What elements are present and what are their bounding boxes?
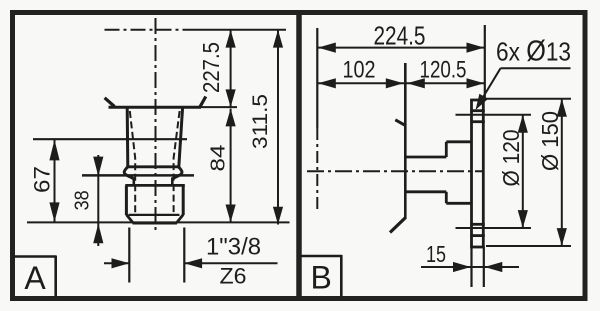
svg-text:1"3/8: 1"3/8	[206, 234, 261, 261]
horizontal centerline	[307, 170, 484, 172]
collar side left	[125, 185, 128, 215]
hole bottom edges	[470, 223, 485, 226]
dim 311.5 line	[277, 30, 279, 225]
bell rim	[109, 106, 202, 109]
svg-text:Ø 120: Ø 120	[498, 130, 524, 187]
flange right face	[482, 100, 485, 248]
dim 67 arrows	[49, 140, 59, 161]
inner shoulder + 67 top extension	[33, 138, 187, 140]
dim 311.5 arrows	[273, 30, 283, 48]
svg-text:Ø 150: Ø 150	[537, 111, 563, 171]
svg-text:120.5: 120.5	[420, 57, 467, 84]
bell wall right	[179, 107, 183, 167]
flange top cap	[470, 99, 485, 102]
svg-text:224.5: 224.5	[374, 21, 426, 51]
neck left	[133, 178, 136, 186]
dim 38 line	[97, 155, 99, 246]
leader arrowhead	[476, 94, 489, 110]
block top	[446, 140, 471, 143]
svg-text:84: 84	[207, 145, 230, 172]
panel divider	[296, 10, 302, 301]
dim 224.5 line	[318, 47, 484, 49]
dim 67 line	[54, 140, 56, 222]
dim 1"3/8 line left tail	[104, 262, 129, 264]
hub top	[405, 156, 446, 159]
step vertical top	[445, 142, 448, 157]
step vertical bottom	[445, 192, 448, 204]
horizontal axis (tractor PTO axis) dash-dot	[105, 29, 191, 31]
svg-text:67: 67	[30, 166, 55, 193]
svg-text:227.5: 227.5	[198, 42, 224, 93]
svg-text:B: B	[311, 260, 332, 296]
collar side right	[182, 185, 185, 215]
Ø120 ext bottom	[456, 227, 532, 229]
chamfer left	[126, 215, 133, 223]
bottom extension line	[27, 221, 290, 223]
leader diagonal	[480, 68, 501, 103]
hole top edges	[470, 109, 485, 112]
flange left ext down	[470, 248, 472, 288]
svg-text:Z6: Z6	[220, 264, 247, 289]
rim extension right	[201, 106, 237, 108]
vertical centerline of shaft	[155, 18, 157, 231]
shaft bottom face	[133, 222, 178, 225]
dim 84 line	[230, 109, 232, 223]
Ø150 ext top	[486, 98, 571, 100]
S-curve right	[172, 167, 182, 179]
label box A	[13, 256, 56, 298]
collar top	[125, 184, 185, 187]
flange right ext down	[483, 248, 485, 288]
tick bottom (break line)	[390, 217, 406, 232]
neck right	[171, 178, 174, 186]
tick top (break line)	[395, 120, 406, 126]
chamfer start line	[129, 214, 180, 216]
Ø150 ext bottom	[486, 245, 571, 247]
mid extension + part left face	[404, 63, 407, 218]
svg-text:A: A	[24, 260, 46, 296]
arrows 1"3/8 (outside)	[112, 258, 130, 268]
groove line + 38 top extension	[82, 174, 194, 177]
S-curve left	[124, 167, 134, 179]
vertical axis: dash-dot lower	[316, 128, 318, 212]
svg-text:6x Ø13: 6x Ø13	[496, 36, 571, 68]
block bottom	[446, 202, 471, 205]
flange left face	[470, 100, 473, 248]
label box B	[300, 255, 342, 297]
svg-text:15: 15	[426, 241, 446, 267]
Ø120 ext top	[456, 114, 532, 116]
dim Ø120 line	[522, 115, 524, 228]
leader shoulder	[501, 67, 571, 69]
flare right	[200, 97, 206, 107]
dim line right tail	[185, 262, 278, 264]
dim 38 arrows (outside)	[93, 157, 103, 177]
dim 102 / 120.5 line	[318, 82, 484, 84]
flange bottom cap	[470, 246, 485, 249]
dim 84 arrows	[226, 109, 236, 127]
ext lines 1"3/8	[128, 228, 130, 283]
svg-text:38: 38	[71, 190, 94, 210]
dim 227.5 line	[230, 30, 232, 107]
chamfer right	[177, 215, 184, 223]
svg-text:102: 102	[343, 57, 376, 84]
hidden spline line left	[130, 111, 135, 214]
flange right ext up	[484, 25, 486, 100]
dim Ø150 line	[561, 99, 563, 246]
hidden spline line right	[174, 111, 180, 214]
bell wall left	[126, 107, 130, 167]
top extension line solid	[190, 29, 286, 31]
svg-text:311.5: 311.5	[249, 94, 272, 149]
hub bottom	[405, 190, 446, 193]
dim 227.5 arrows	[226, 30, 236, 48]
flare left	[105, 98, 115, 107]
dim 15	[421, 266, 519, 268]
bell bottom	[127, 165, 179, 168]
vertical axis: solid upper	[316, 28, 318, 128]
